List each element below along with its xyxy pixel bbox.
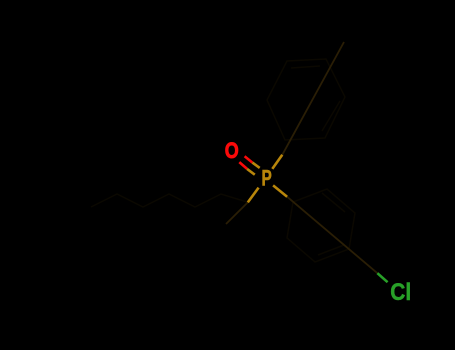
svg-text:P: P xyxy=(262,167,272,192)
svg-text:O: O xyxy=(225,139,239,163)
svg-text:Cl: Cl xyxy=(390,279,411,306)
